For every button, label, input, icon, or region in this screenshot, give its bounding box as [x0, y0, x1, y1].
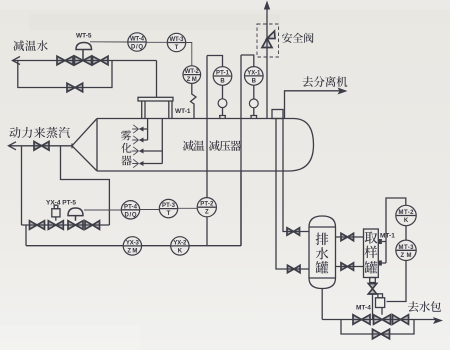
wire: water main line	[13, 60, 157, 62]
motor valve YX-4 actuator	[52, 205, 60, 221]
wire: bracket to PT-1	[207, 56, 223, 67]
signal wire PT-3 to PT-2	[178, 207, 197, 209]
svg-text:T: T	[167, 211, 171, 217]
valve (steam inlet)	[34, 142, 49, 151]
wire: drop + right riser of reducing loop	[61, 146, 110, 225]
svg-text:WT-1: WT-1	[175, 108, 191, 115]
signal wire MT-2 to MT-3	[405, 226, 407, 240]
svg-text:Z: Z	[205, 210, 209, 216]
wire: safety relief riser	[266, 3, 268, 119]
svg-text:PT-3: PT-3	[162, 203, 176, 209]
valve (drain A)	[288, 265, 301, 272]
arrowhead 去分离机	[338, 88, 348, 95]
svg-text:ZM: ZM	[401, 253, 412, 259]
spray nozzle 1	[132, 125, 143, 133]
wire: drain tank to sampling tank lower	[336, 266, 364, 268]
instrument YX-2	[171, 237, 189, 255]
svg-text:YX-4 PT-5: YX-4 PT-5	[46, 200, 76, 207]
label 雾化器 (vertical)	[121, 130, 131, 140]
nozzle (sampling upper right)	[378, 239, 382, 244]
wire: water drop to atomizer header	[156, 61, 158, 98]
arrowhead (relief to atmosphere)	[264, 1, 270, 10]
instrument PT-1	[213, 67, 232, 86]
valve (group block 1)	[30, 221, 45, 230]
atomizer header bar	[138, 97, 173, 101]
vessel inlet cone	[72, 119, 97, 172]
drain tank shell	[309, 216, 336, 289]
control valve WT-5 body	[75, 56, 92, 65]
svg-text:T: T	[175, 45, 179, 51]
label 动力来蒸汽	[9, 127, 70, 138]
valve (water block 1)	[57, 56, 73, 65]
instrument PT-2	[197, 198, 216, 217]
wire: valve group line	[22, 224, 110, 226]
seal pot (PT-1)	[218, 99, 227, 119]
wire: level standpipe x241 (bracket top through vessel to level row)	[240, 55, 242, 246]
label 减温水	[13, 40, 47, 51]
wire: sampling drain down to manifold	[372, 294, 374, 320]
wire: manifold bypass	[341, 320, 414, 335]
control valve PT-5 actuator	[68, 208, 83, 221]
svg-text:B: B	[252, 78, 257, 84]
motor valve YX-4 body	[48, 221, 63, 230]
valve (manifold bypass)	[373, 329, 390, 339]
signal wire WT-3 to WT-2	[186, 43, 192, 66]
vessel 减温减压器 shell	[97, 119, 314, 172]
label 取样罐 (vertical)	[365, 231, 378, 243]
svg-text:MT-2: MT-2	[399, 210, 415, 216]
spray nozzle 2	[132, 136, 143, 144]
wire: drain tank to sampling tank upper	[336, 236, 364, 238]
sampling tank bottom stub	[370, 278, 376, 283]
control valve PT-5 body	[68, 221, 83, 230]
signal wire WT-5 to WT-4	[90, 41, 128, 43]
valve (manifold 1)	[353, 315, 370, 325]
svg-text:MT-3: MT-3	[399, 245, 415, 251]
svg-text:YX-3: YX-3	[126, 240, 140, 246]
label 去水包	[408, 301, 441, 312]
svg-text:YX-2: YX-2	[173, 240, 187, 246]
label 去分离机	[303, 76, 348, 87]
atomizer left leg	[142, 101, 145, 119]
valve (xfer upper)	[341, 233, 354, 240]
svg-text:K: K	[178, 248, 183, 254]
instrument MT-3	[396, 240, 416, 260]
control valve WT-5 actuator	[76, 43, 92, 61]
atomizer inner pipe 1	[144, 119, 148, 141]
instrument YX-1	[245, 67, 264, 86]
svg-text:ZM: ZM	[127, 248, 137, 254]
instrument PT-4	[121, 201, 139, 219]
wire: to separator line	[285, 91, 342, 119]
instrument WT-4	[128, 33, 146, 51]
safety valve dashed box	[257, 24, 279, 57]
valve (group block 2)	[85, 221, 100, 230]
sampling drain valve (vertical)	[368, 284, 376, 295]
motor valve MT-4 body	[374, 315, 391, 325]
signal wire WT-4 to WT-3	[146, 41, 167, 43]
vessel label 减温 减压器	[183, 140, 241, 151]
valve (xfer lower)	[341, 263, 354, 270]
svg-text:D/Q: D/Q	[131, 45, 143, 51]
svg-text:ZM: ZM	[187, 77, 197, 83]
valve (drain B)	[287, 228, 300, 235]
svg-text:PT-1: PT-1	[216, 71, 230, 77]
svg-text:YX-1: YX-1	[247, 70, 261, 76]
instrument PT-3	[159, 199, 177, 217]
atomizer inner pipe 2	[144, 119, 163, 164]
wire: WT-2 down with break to thermowell WT-1	[191, 83, 197, 118]
svg-text:PT-4: PT-4	[124, 204, 138, 210]
wire: YX-1 to seal pot	[253, 85, 255, 99]
arrowhead 去水包	[433, 317, 443, 324]
signal wire PT-5 to PT-4	[84, 209, 121, 211]
nozzle (sampling lower right)	[378, 261, 382, 266]
wire: MT-3 down to MT-4 actuator	[387, 261, 407, 302]
wire: sampling standpipe to MT-2	[382, 198, 406, 263]
sampling tank shell	[364, 229, 379, 278]
water inlet arrow	[13, 57, 21, 65]
svg-text:PT-2: PT-2	[200, 202, 214, 208]
svg-text:B: B	[220, 79, 225, 85]
wire: level row line	[26, 171, 241, 246]
valve (water bypass)	[67, 83, 83, 92]
label 排水罐 (vertical)	[316, 233, 329, 246]
wire: bracket to YX-1	[241, 55, 254, 67]
svg-text:WT-5: WT-5	[76, 33, 92, 40]
seal pot (YX-1)	[249, 99, 258, 119]
wire: drain pipe B (upper tap)	[283, 119, 309, 232]
wire: PT-1 to seal pot	[222, 85, 224, 99]
instrument MT-2	[396, 205, 416, 225]
svg-text:MT-1: MT-1	[380, 233, 395, 240]
wire: water bypass loop	[18, 61, 112, 88]
atomizer right leg	[169, 101, 172, 119]
wire: drop from group to level row	[25, 225, 27, 246]
svg-text:K: K	[404, 218, 409, 224]
instrument YX-3	[123, 237, 141, 255]
svg-text:WT-4: WT-4	[130, 37, 145, 43]
svg-text:D/Q: D/Q	[125, 212, 137, 218]
wire: drain tank bottom outlet	[321, 289, 323, 320]
wire: pressure standpipe x207 (bracket top to vessel, through vessel, to PT-2)	[206, 56, 208, 246]
safety valve symbol	[262, 31, 275, 48]
valve (manifold 2)	[393, 315, 409, 325]
valve (water block 2)	[93, 56, 109, 65]
wire: manifold main line	[322, 319, 436, 321]
wire: drop to reducing valve group (left)	[21, 146, 23, 225]
wire: steam main line	[9, 145, 73, 147]
signal wire PT-4 to PT-3	[140, 209, 159, 211]
wire: drain pipe A (lower tap)	[276, 119, 309, 270]
svg-text:WT-3: WT-3	[170, 37, 185, 43]
motor valve MT-4 actuator	[376, 294, 385, 315]
svg-text:WT-2: WT-2	[185, 69, 200, 75]
label 安全阀	[282, 33, 314, 43]
steam inlet arrow	[9, 142, 17, 150]
vessel top stub nozzle	[272, 110, 283, 119]
instrument WT-3	[167, 33, 185, 51]
instrument WT-2	[183, 66, 201, 84]
spray nozzle 4	[132, 159, 143, 167]
spray nozzle 3	[132, 147, 143, 155]
svg-text:MT-4: MT-4	[356, 305, 371, 312]
